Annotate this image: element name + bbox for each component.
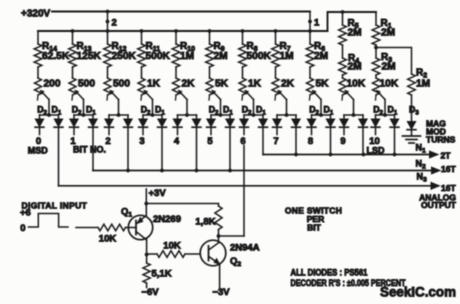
diode D1 bit 7 [295,115,297,119]
wire R3 to pot [375,75,377,78]
wire R2 to D3 [411,95,413,122]
node 1 [308,20,312,24]
node 2 [106,10,110,14]
svg-text:10K: 10K [380,79,399,90]
transistor Q1 2N269 [128,215,152,239]
svg-text:1K: 1K [147,79,161,90]
node bit 6 diode tee [244,114,263,116]
svg-text:BIT: BIT [307,223,322,233]
svg-text:200: 200 [44,79,61,90]
svg-text:DIGITAL INPUT: DIGITAL INPUT [22,200,88,210]
svg-text:500K: 500K [247,51,272,62]
pot 2K wiper [179,91,187,99]
pot 200 bottom stub [37,95,40,100]
svg-text:6: 6 [240,136,245,147]
resistor R8 500K [242,31,244,44]
wire +3V [145,189,147,204]
node bit 1 diode tee [74,114,93,116]
wire +320V rail [52,11,310,13]
resistor R6 2M [309,31,311,44]
wire D1 bit 7 to winding bus [295,128,297,154]
pot 5K bottom stub [309,95,312,100]
svg-text:2M: 2M [314,51,328,62]
potentiometer 500 bit 2 [104,78,111,95]
node bit 9 diode tee [344,114,363,116]
svg-text:2M: 2M [348,62,362,73]
terminal bit 8 [311,128,313,134]
resistor R4 2M [339,58,347,75]
terminal bit 6 [243,128,245,134]
pot 1K bottom stub [140,95,143,100]
svg-text:2: 2 [105,136,110,147]
wire Q2 emitter to -3V [219,264,221,287]
diode D2 bit 4 [177,115,179,119]
resistor R1 2M [375,12,377,25]
svg-text:1M: 1M [280,51,294,62]
wire to -6V [146,283,148,288]
svg-text:62.5K: 62.5K [42,51,70,62]
diode D1 bit 5 [229,115,231,119]
terminal bit 3 [142,128,144,134]
svg-text:125K: 125K [77,51,102,62]
pot 1K wiper [145,91,153,99]
pot 2K wiper [279,91,287,99]
pot 500 wiper [76,91,84,99]
svg-text:2K: 2K [281,79,295,90]
node R5 top [341,10,345,14]
wire D1 bit 1 to winding bus [92,128,94,170]
svg-text:SeekIC.com: SeekIC.com [380,285,456,300]
pot 5K bottom stub [208,95,211,100]
svg-text:OUTPUT: OUTPUT [421,200,457,210]
svg-text:3: 3 [139,136,144,147]
wire +3V to 1.8K [146,204,218,207]
wire R10 to pot [175,67,177,78]
pot 10K wiper bit 9 [346,91,354,99]
terminal bit 4 [177,128,179,134]
resistor R2 1M [408,74,416,95]
wire R8 to pot [242,67,244,78]
svg-text:N3: N3 [417,172,428,184]
resistor R7 1M [275,31,277,44]
wire bus riser to upper rail [328,12,377,31]
potentiometer 1K bit 6 [239,78,246,95]
diode D1 bit 9 [362,115,364,119]
svg-text:2K: 2K [182,79,196,90]
svg-text:1K: 1K [248,79,262,90]
svg-text:TURNS: TURNS [426,135,456,145]
resistor R11 500K [141,31,143,44]
node R1-R3-R2 junction [375,45,377,58]
pot 2K bottom stub [274,95,277,100]
resistor R14 62.5K [37,31,39,44]
wire to Q2 base [185,253,200,255]
diode D2 bit 6 [243,115,245,119]
node bit 7 diode tee [277,114,296,116]
diode D2 bit 2 [108,115,110,119]
wire winding N3 bus [59,185,439,187]
svg-text:N1: N1 [416,143,427,155]
svg-text:ALL DIODES : PS561: ALL DIODES : PS561 [291,268,368,278]
terminal bit 10 [375,128,377,134]
diode D2 bit 5 [210,115,212,119]
svg-text:Q1: Q1 [121,207,132,219]
terminal bit 0 [39,128,41,134]
svg-text:N2: N2 [416,159,427,171]
wire D1 bit 9 to winding bus [362,128,364,154]
diode D2 bit 9 [343,115,345,119]
wire R6 to pot [309,67,311,78]
wire R5-R4 [342,45,344,58]
diode D2 bit 0 [39,115,41,119]
wire node1 vertical [309,12,311,32]
svg-text:10K: 10K [99,234,117,245]
resistor 5.1K [146,255,148,264]
resistor R10 1M [175,31,177,44]
wire R11 to pot [141,67,143,78]
svg-text:1: 1 [314,18,320,29]
wire D1 bit 5 to winding bus [229,128,231,170]
svg-text:+3V: +3V [149,188,167,199]
wire R13 to pot [72,67,74,78]
diode D1 bit 10 [394,115,396,119]
diode D2 bit 10 [375,115,377,119]
diode D2 bit 3 [142,115,144,119]
resistor R5 2M [342,12,344,25]
svg-text:1M: 1M [180,51,194,62]
wire Q1 collector [146,240,148,255]
wire R1 junction to R2 [376,48,412,75]
resistor 10K input [98,224,126,231]
resistor R13 125K [72,31,74,44]
wire D1 bit 10 to winding bus [394,128,396,154]
svg-text:10K: 10K [163,240,181,251]
svg-text:8: 8 [308,136,313,147]
svg-text:2T: 2T [441,151,452,161]
diode D1 bit 1 [92,115,94,119]
wire D1 bit 8 to winding bus [330,128,332,154]
wire winding N1 bus [263,154,437,156]
diode D1 bit 4 [196,115,198,119]
potentiometer 10K bit 9 [339,78,346,95]
svg-text:2M: 2M [348,28,362,39]
svg-text:7: 7 [273,136,278,147]
resistor 10K coupling [147,253,157,255]
pot 500 bottom stub [71,95,74,100]
svg-text:16T: 16T [441,183,456,193]
svg-text:5K: 5K [316,79,330,90]
node Q1 collector junction [145,253,149,257]
wire R9 to pot [209,67,211,78]
svg-text:5: 5 [207,136,213,147]
pot 2K bottom stub [175,95,178,100]
node bit 8 diode tee [312,114,331,116]
potentiometer 500 bit 1 [69,78,76,95]
wire R7 to pot [275,67,277,78]
node bit 3 diode tee [143,114,162,116]
svg-text:MSD: MSD [28,146,49,156]
pot 10K bit 10 bottom stub [375,95,378,100]
node bit 5 diode tee [211,114,230,116]
svg-text:+6: +6 [20,208,31,219]
svg-text:1M: 1M [416,79,430,90]
node bit 4 diode tee [178,114,197,116]
terminal bit 5 [210,128,212,134]
transistor Q2 2N94A [200,240,226,266]
potentiometer 5K bit 8 [307,78,314,95]
svg-text:1,8K: 1,8K [195,217,215,228]
terminal bit 7 [276,128,278,134]
svg-text:16T: 16T [441,164,456,174]
svg-text:2M: 2M [381,28,395,39]
node Q2 collector junction [217,234,221,238]
svg-text:0: 0 [20,223,25,234]
svg-text:BIT NO.: BIT NO. [73,145,106,155]
svg-text:D3: D3 [409,105,419,117]
svg-text:−6V: −6V [141,287,159,298]
diode D1 bit 6 [262,115,264,119]
terminal bit 1 [73,128,75,134]
potentiometer 200 bit 0 [35,78,42,95]
node bit 2 diode tee [109,114,128,116]
terminal bit 2 [108,128,110,134]
svg-text:500K: 500K [146,51,171,62]
wire resistor bus [38,30,328,32]
wire D1 bit 3 to winding bus [161,128,163,170]
wire D1 bit 0 to winding bus [58,128,60,186]
node +3V junction [144,202,148,206]
diode D2 bit 8 [311,115,313,119]
pot 10K wiper bit 10 [377,91,385,99]
svg-text:500: 500 [78,79,95,90]
wire D1 bit 6 to winding bus [262,128,264,154]
resistor R12 250K [107,31,109,44]
diode D2 bit 7 [276,115,278,119]
diode D1 bit 2 [127,115,129,119]
potentiometer 5K bit 5 [206,78,213,95]
input pulse waveform [29,214,69,228]
wire D1 bit 4 to winding bus [196,128,198,170]
svg-text:+320V: +320V [21,9,51,20]
svg-text:2N269: 2N269 [153,214,181,225]
pot 500 bottom stub [106,95,109,100]
svg-text:2: 2 [112,18,117,29]
svg-text:2N94A: 2N94A [230,243,260,254]
potentiometer 2K bit 7 [272,78,279,95]
svg-text:9: 9 [340,136,345,147]
potentiometer 10K bit 10 [373,78,380,95]
wire to Q1 base [126,227,129,229]
wire 1.8K to collector node [218,230,220,237]
junction dots on bus [71,29,75,33]
pot 1K wiper [246,91,254,99]
svg-text:10K: 10K [347,79,366,90]
resistor R3 2M [372,58,380,75]
wire bit 6 to switch [243,146,245,237]
node bit 0 diode tee [40,114,59,116]
potentiometer 1K bit 3 [138,78,145,95]
svg-text:−3V: −3V [212,287,230,298]
ground [411,131,413,136]
svg-text:5,1K: 5,1K [152,269,172,280]
pot 5K wiper [313,91,321,99]
resistor 1.8K [215,206,222,230]
pot 1K bottom stub [241,95,244,100]
pot 500 wiper [111,91,119,99]
wire R4 to pot [342,75,344,78]
svg-text:5K: 5K [215,79,229,90]
svg-text:Q2: Q2 [230,256,241,268]
wire D1 bit 2 to winding bus [127,128,129,170]
wire node2 vertical [107,12,109,32]
pot 10K bit 9 bottom stub [341,95,344,100]
svg-text:2M: 2M [382,62,396,73]
diode D1 bit 8 [330,115,332,119]
diode D1 bit 0 [58,115,60,119]
wire R14 to pot [37,67,39,78]
wire winding N2 bus [93,170,439,172]
svg-text:2M: 2M [214,51,228,62]
svg-text:500: 500 [113,79,130,90]
wire input [76,227,98,229]
diode D1 bit 3 [161,115,163,119]
wire R12 to pot [107,67,109,78]
pot 5K wiper [213,91,221,99]
potentiometer 2K bit 4 [173,78,180,95]
resistor R9 2M [209,31,211,44]
node bit 10 diode tee [376,114,395,116]
svg-text:4: 4 [174,136,180,147]
diode D2 bit 1 [73,115,75,119]
svg-text:250K: 250K [112,51,137,62]
pot 200 wiper [41,91,49,99]
terminal bit 9 [343,128,345,134]
